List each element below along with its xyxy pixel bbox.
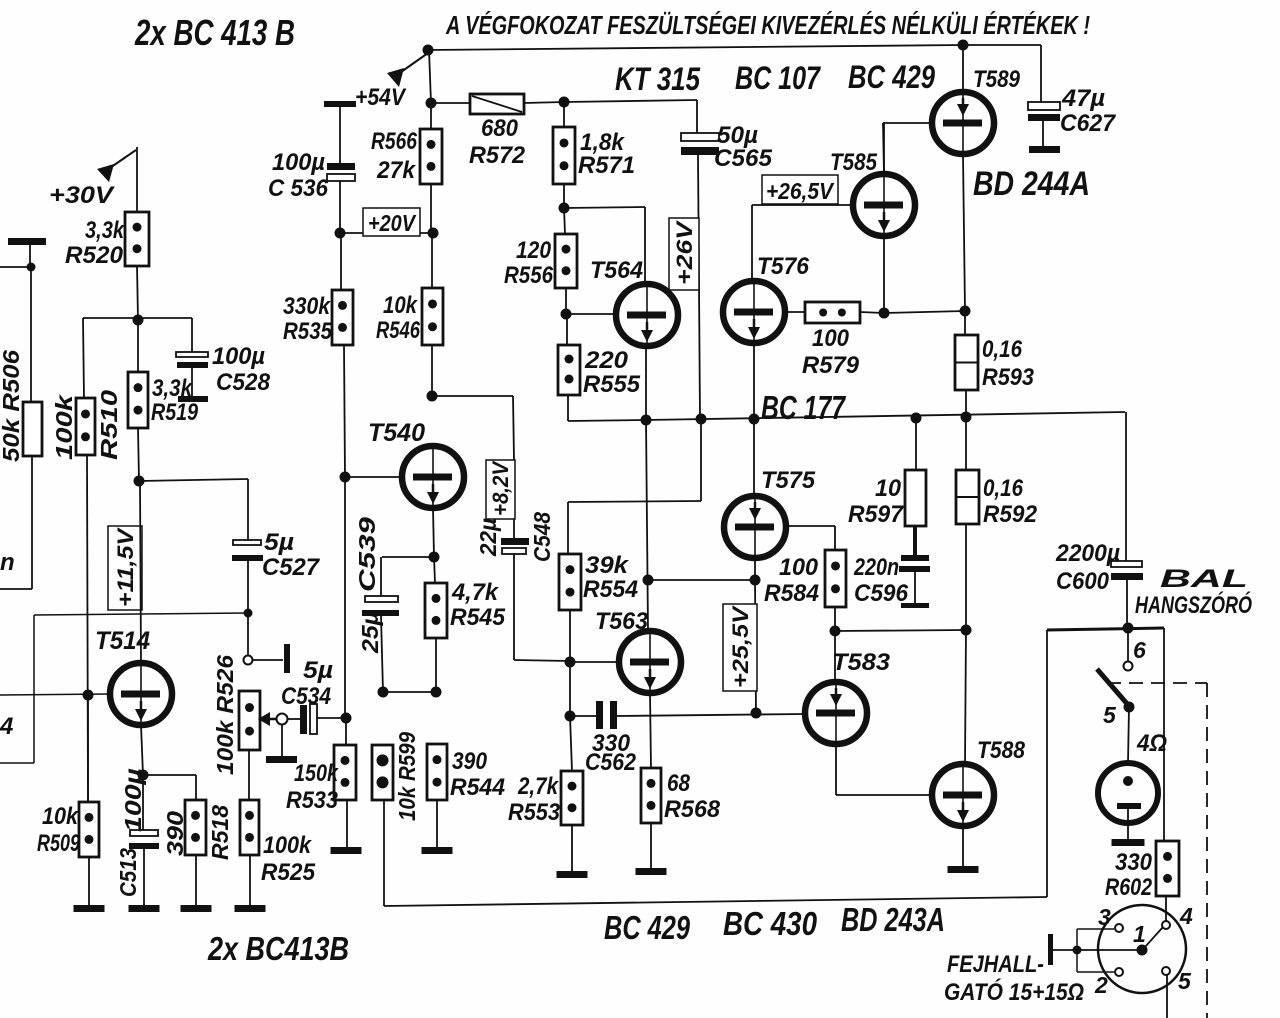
svg-text:BC 429: BC 429: [848, 59, 935, 95]
svg-text:+25,5V: +25,5V: [728, 604, 753, 688]
svg-text:C 536: C 536: [268, 175, 329, 202]
svg-text:4: 4: [0, 713, 13, 740]
svg-text:R555: R555: [583, 371, 641, 398]
svg-text:4: 4: [1179, 903, 1193, 929]
svg-text:R597: R597: [848, 501, 905, 528]
svg-text:220: 220: [584, 347, 629, 374]
svg-text:C539: C539: [354, 517, 380, 592]
svg-text:A VÉGFOKOZAT FESZÜLTSÉGEI K: A VÉGFOKOZAT FESZÜLTSÉGEI KIVEZÉRLÉS NÉL…: [445, 10, 1090, 40]
svg-text:R525: R525: [261, 859, 316, 886]
svg-text:R545: R545: [450, 604, 506, 631]
svg-text:1: 1: [1133, 921, 1146, 947]
svg-text:BC 429: BC 429: [604, 909, 690, 946]
svg-text:T585: T585: [830, 149, 878, 176]
svg-text:T576: T576: [757, 253, 810, 280]
svg-text:n: n: [0, 549, 15, 576]
svg-text:2x BC413B: 2x BC413B: [207, 930, 349, 967]
svg-text:100µ: 100µ: [120, 768, 146, 832]
svg-text:+26,5V: +26,5V: [766, 178, 835, 204]
svg-text:BC 177: BC 177: [761, 389, 846, 426]
svg-text:T583: T583: [832, 649, 891, 676]
svg-text:C527: C527: [262, 554, 321, 581]
svg-text:4,7k: 4,7k: [451, 579, 500, 606]
svg-text:R592: R592: [983, 501, 1038, 528]
svg-text:+8,2V: +8,2V: [488, 460, 513, 516]
svg-text:R568: R568: [664, 796, 721, 823]
svg-text:330k: 330k: [283, 293, 331, 320]
svg-text:C627: C627: [1060, 110, 1117, 137]
svg-text:100: 100: [779, 554, 819, 581]
svg-text:2: 2: [1094, 972, 1108, 998]
svg-text:5µ: 5µ: [303, 657, 333, 684]
svg-text:22µ: 22µ: [475, 518, 501, 557]
svg-text:R593: R593: [982, 364, 1035, 391]
svg-text:R535: R535: [283, 318, 333, 345]
svg-text:10k R599: 10k R599: [394, 732, 420, 821]
svg-text:5: 5: [1178, 968, 1192, 994]
svg-text:BC 430: BC 430: [723, 905, 818, 942]
svg-text:10k: 10k: [42, 803, 79, 830]
svg-text:HANGSZÓRÓ: HANGSZÓRÓ: [1135, 591, 1252, 619]
svg-text:FEJHALL-: FEJHALL-: [947, 951, 1044, 978]
svg-text:T563: T563: [595, 608, 649, 635]
svg-text:R510: R510: [96, 390, 122, 460]
svg-text:0,16: 0,16: [982, 336, 1023, 363]
svg-text:BD 243A: BD 243A: [841, 901, 945, 938]
svg-text:100k R526: 100k R526: [212, 655, 238, 775]
svg-text:T564: T564: [590, 257, 643, 284]
svg-text:R566: R566: [371, 128, 418, 155]
svg-text:R602: R602: [1105, 874, 1153, 901]
svg-text:R584: R584: [764, 580, 819, 607]
svg-text:T588: T588: [977, 737, 1026, 764]
svg-text:C513: C513: [115, 848, 141, 897]
svg-text:5: 5: [1103, 702, 1117, 728]
svg-text:R518: R518: [207, 805, 233, 860]
svg-text:2x BC 413 B: 2x BC 413 B: [134, 12, 295, 53]
svg-text:BD 244A: BD 244A: [973, 165, 1090, 203]
svg-text:BAL: BAL: [1160, 565, 1248, 593]
svg-text:2200µ: 2200µ: [1055, 540, 1120, 567]
svg-text:R553: R553: [508, 799, 561, 826]
svg-text:3,3k: 3,3k: [85, 217, 125, 244]
svg-text:0,16: 0,16: [983, 475, 1024, 502]
svg-text:GATÓ 15+15Ω: GATÓ 15+15Ω: [944, 978, 1084, 1006]
svg-text:25µ: 25µ: [357, 611, 383, 654]
svg-text:R579: R579: [802, 352, 860, 379]
svg-text:47µ: 47µ: [1061, 85, 1105, 112]
svg-text:27k: 27k: [376, 157, 417, 184]
svg-text:R544: R544: [450, 774, 505, 801]
svg-text:100k: 100k: [263, 832, 312, 859]
svg-text:R519: R519: [151, 399, 199, 426]
svg-text:10k: 10k: [383, 292, 418, 319]
svg-text:R533: R533: [286, 787, 339, 814]
svg-text:C534: C534: [281, 683, 331, 710]
svg-text:R520: R520: [65, 242, 124, 269]
svg-text:100k: 100k: [51, 393, 77, 460]
svg-text:R546: R546: [376, 317, 421, 344]
svg-text:R571: R571: [578, 152, 635, 179]
svg-text:2,7k: 2,7k: [517, 773, 559, 800]
svg-text:+54V: +54V: [355, 84, 407, 111]
svg-text:+11,5V: +11,5V: [113, 526, 138, 607]
svg-text:220n: 220n: [853, 554, 899, 581]
svg-text:+26V: +26V: [672, 219, 697, 285]
svg-text:C562: C562: [585, 749, 637, 776]
svg-text:3: 3: [1098, 904, 1111, 930]
svg-text:T514: T514: [95, 627, 150, 655]
svg-text:+30V: +30V: [49, 182, 115, 209]
svg-text:39k: 39k: [585, 552, 630, 579]
svg-text:330: 330: [1115, 849, 1153, 876]
svg-text:120: 120: [516, 237, 552, 264]
svg-text:R554: R554: [583, 576, 638, 603]
svg-text:R572: R572: [469, 142, 526, 169]
svg-text:C596: C596: [854, 580, 909, 607]
svg-text:T540: T540: [368, 419, 425, 447]
svg-text:390: 390: [162, 811, 188, 856]
svg-text:R509: R509: [37, 830, 80, 857]
svg-text:100µ: 100µ: [212, 343, 265, 370]
svg-text:C548: C548: [529, 512, 555, 562]
svg-text:100µ: 100µ: [272, 149, 325, 176]
svg-text:BC 107: BC 107: [735, 60, 822, 96]
svg-text:+20V: +20V: [368, 210, 416, 236]
svg-text:5µ: 5µ: [264, 529, 294, 556]
svg-text:10: 10: [875, 475, 902, 502]
svg-text:T589: T589: [973, 66, 1021, 93]
svg-text:R556: R556: [504, 262, 554, 289]
svg-text:C528: C528: [216, 369, 271, 396]
svg-text:T575: T575: [761, 467, 816, 494]
svg-text:4Ω: 4Ω: [1136, 730, 1167, 757]
svg-text:68: 68: [667, 770, 691, 797]
svg-text:C565: C565: [714, 145, 773, 172]
svg-text:390: 390: [452, 748, 488, 775]
svg-text:6: 6: [1133, 637, 1146, 663]
svg-text:150k: 150k: [294, 760, 339, 787]
svg-text:50k R506: 50k R506: [0, 350, 24, 462]
svg-text:680: 680: [481, 115, 519, 142]
svg-text:C600: C600: [1056, 568, 1110, 595]
svg-text:100: 100: [812, 325, 850, 352]
svg-text:KT 315: KT 315: [615, 61, 701, 97]
